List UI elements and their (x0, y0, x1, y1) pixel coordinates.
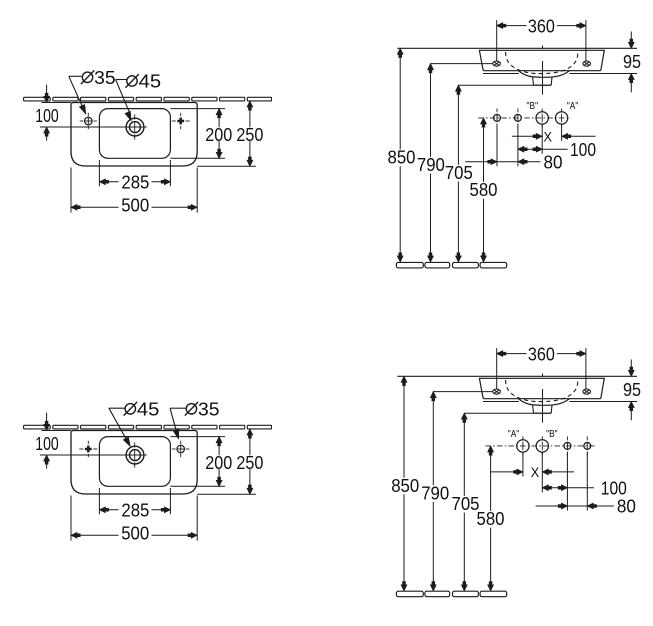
svg-text:790: 790 (417, 154, 445, 175)
svg-text:250: 250 (236, 452, 263, 473)
svg-text:"B": "B" (527, 101, 539, 112)
svg-text:285: 285 (121, 171, 149, 192)
svg-text:45: 45 (137, 399, 160, 420)
svg-text:360: 360 (528, 343, 555, 364)
svg-text:80: 80 (544, 151, 563, 172)
svg-text:500: 500 (121, 523, 149, 544)
svg-text:35: 35 (94, 67, 116, 88)
svg-text:"B": "B" (546, 429, 558, 440)
svg-text:"A": "A" (567, 101, 579, 112)
svg-text:580: 580 (470, 179, 498, 200)
svg-text:35: 35 (198, 399, 220, 420)
svg-text:580: 580 (477, 508, 505, 529)
svg-text:285: 285 (121, 499, 149, 520)
svg-text:200: 200 (205, 124, 232, 145)
svg-text:80: 80 (617, 496, 636, 517)
svg-text:360: 360 (528, 15, 555, 36)
svg-text:45: 45 (139, 71, 162, 92)
svg-text:95: 95 (623, 379, 641, 400)
svg-text:"A": "A" (508, 429, 520, 440)
svg-text:850: 850 (391, 475, 419, 496)
svg-text:200: 200 (205, 452, 232, 473)
svg-text:100: 100 (35, 105, 58, 126)
svg-text:100: 100 (35, 433, 58, 454)
svg-text:705: 705 (452, 493, 480, 514)
svg-text:100: 100 (570, 139, 596, 160)
svg-text:X: X (544, 129, 553, 144)
svg-text:500: 500 (121, 195, 149, 216)
svg-text:850: 850 (388, 147, 416, 168)
svg-text:X: X (531, 465, 540, 480)
svg-text:790: 790 (421, 482, 449, 503)
svg-text:95: 95 (623, 51, 641, 72)
svg-text:250: 250 (236, 124, 263, 145)
